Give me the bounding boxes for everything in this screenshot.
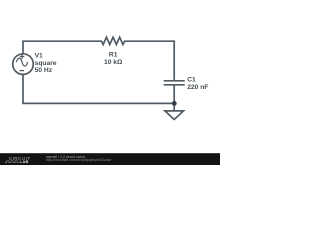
svg-text:220 nF: 220 nF (187, 84, 208, 91)
svg-text:V1: V1 (35, 53, 43, 60)
svg-text:LAB: LAB (20, 159, 29, 164)
svg-text:10 kΩ: 10 kΩ (104, 59, 123, 66)
svg-text:C1: C1 (187, 77, 196, 84)
svg-text:square: square (35, 60, 57, 67)
svg-text:50 Hz: 50 Hz (35, 67, 53, 74)
svg-text:R1: R1 (109, 52, 118, 59)
svg-text:http://circuitlab.com/circuit/: http://circuitlab.com/circuit/pqb6v4z52u… (46, 158, 112, 162)
